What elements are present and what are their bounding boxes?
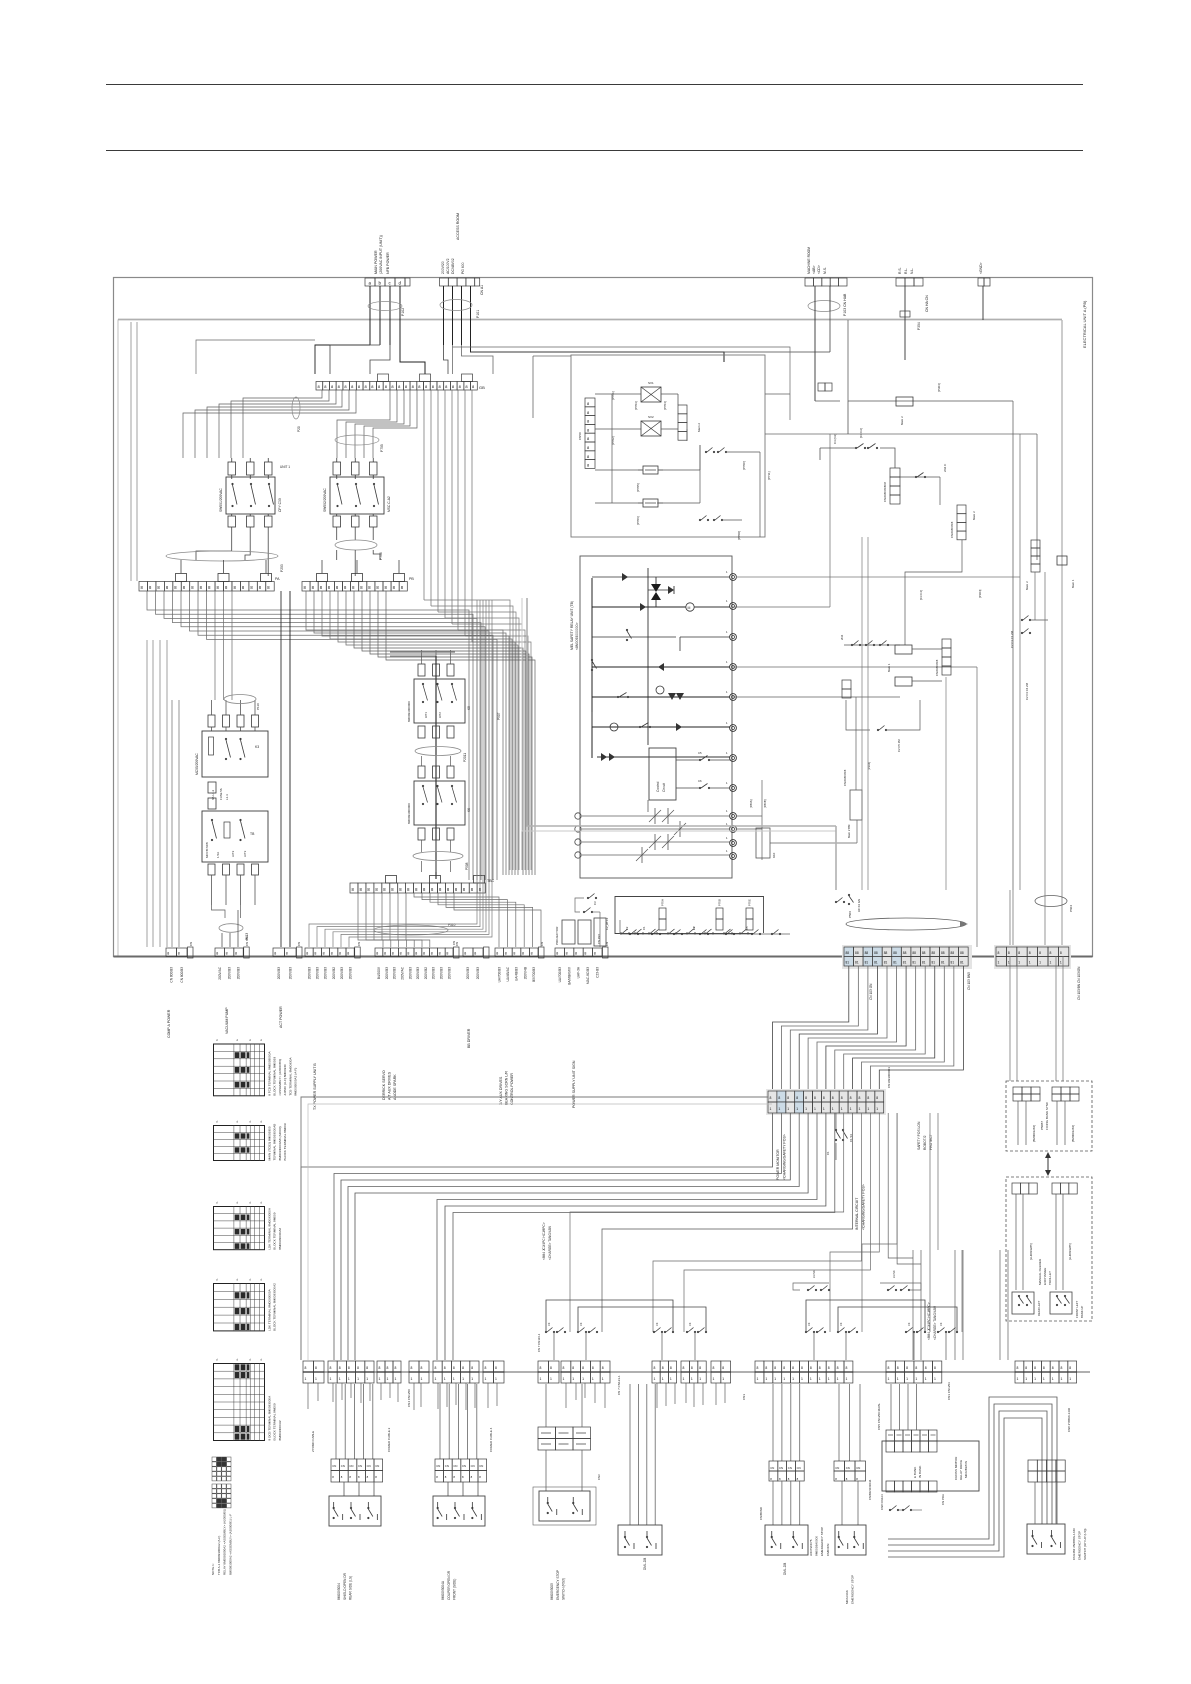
- svg-text:<8M4 JCJ/4PC HCJ/8PC>: <8M4 JCJ/4PC HCJ/8PC>: [927, 1302, 931, 1340]
- svg-text:UA/4B/AC: UA/4B/AC: [506, 966, 510, 981]
- svg-text:88: 88: [884, 951, 888, 955]
- svg-text:<CHARGING/SAFETY POS>: <CHARGING/SAFETY POS>: [783, 1134, 787, 1180]
- svg-text:CN 800/B3: CN 800/B3: [180, 967, 184, 983]
- svg-text:8: 8: [805, 1096, 807, 1100]
- svg-text:CN: CN: [462, 1464, 466, 1468]
- svg-text:1: 1: [379, 1377, 381, 1381]
- svg-text:A/C/TWC75: A/C/TWC75: [809, 1539, 813, 1556]
- svg-text:8: 8: [572, 1366, 574, 1370]
- svg-text:MANUAL FEEDER: MANUAL FEEDER: [1038, 1258, 1042, 1285]
- svg-text:C2: C2: [625, 926, 629, 930]
- svg-text:MACHINE ROOM: MACHINE ROOM: [807, 247, 811, 274]
- svg-text:8: 8: [216, 952, 218, 956]
- svg-text:1: 1: [1050, 961, 1052, 965]
- svg-text:1: 1: [915, 1377, 917, 1381]
- svg-text:8: 8: [178, 952, 180, 956]
- svg-text:CN 800/B3: CN 800/B3: [169, 967, 173, 983]
- svg-text:8: 8: [366, 1366, 368, 1370]
- svg-text:CN8 CN124: CN8 CN124: [880, 1494, 884, 1510]
- svg-text:SWITCH (RH UP (LS)): SWITCH (RH UP (LS)): [1083, 1529, 1087, 1560]
- svg-text:Main 1: Main 1: [887, 663, 891, 672]
- svg-text:8: 8: [323, 952, 325, 956]
- svg-text:200V/B3: 200V/B3: [476, 967, 480, 979]
- svg-text:1: 1: [1039, 961, 1041, 965]
- svg-text:8: 8: [167, 952, 169, 956]
- svg-text:EMERGENCY STOP: EMERGENCY STOP: [820, 1527, 824, 1556]
- svg-text:8: 8: [421, 1366, 423, 1370]
- svg-text:C5: C5: [698, 751, 702, 755]
- svg-text:8: 8: [387, 1366, 389, 1370]
- svg-text:C2: C2: [692, 926, 696, 930]
- svg-text:88: 88: [903, 951, 907, 955]
- svg-text:TB: TB: [250, 832, 255, 836]
- svg-text:8: 8: [446, 952, 448, 956]
- svg-text:1: 1: [796, 1107, 798, 1111]
- svg-text:ANODE SPARK: ANODE SPARK: [393, 1074, 397, 1100]
- svg-text:88: 88: [874, 951, 878, 955]
- svg-text:8: 8: [792, 1366, 794, 1370]
- svg-text:1: 1: [713, 1377, 715, 1381]
- svg-text:[P706]: [P706]: [636, 516, 640, 525]
- svg-text:8: 8: [846, 1366, 848, 1370]
- svg-text:8: 8: [550, 1366, 552, 1370]
- svg-text:SWITCH (RS3): SWITCH (RS3): [562, 1578, 566, 1600]
- svg-text:P101: P101: [476, 310, 480, 318]
- svg-text:1: 1: [582, 1377, 584, 1381]
- svg-text:8: 8: [376, 952, 378, 956]
- svg-text:8: 8: [496, 952, 498, 956]
- svg-text:81: 81: [951, 961, 955, 965]
- svg-text:200V/B2: 200V/B2: [424, 967, 428, 979]
- svg-text:200V/B3: 200V/B3: [385, 967, 389, 979]
- svg-text:1: 1: [841, 1107, 843, 1111]
- svg-text:8: 8: [713, 1366, 715, 1370]
- svg-text:REAR LEFT: REAR LEFT: [1037, 1300, 1041, 1316]
- svg-text:UNIT 1: UNIT 1: [280, 465, 290, 469]
- svg-text:81: 81: [893, 961, 897, 965]
- svg-text:CN/BOND: CN/BOND: [759, 1507, 763, 1520]
- svg-text:P705: P705: [380, 444, 384, 452]
- svg-text:<ASSEMBLY> (A2000/B3): <ASSEMBLY> (A2000/B3): [278, 1059, 282, 1096]
- svg-text:CN: CN: [479, 1464, 483, 1468]
- svg-text:POWER MONITOR: POWER MONITOR: [776, 1149, 780, 1180]
- svg-text:AC/100V2: AC/100V2: [446, 258, 450, 274]
- svg-text:ELECTRICAL UNIT A (PB): ELECTRICAL UNIT A (PB): [1082, 300, 1087, 348]
- svg-text:P508: P508: [465, 862, 469, 870]
- svg-text:MSC C-A2: MSC C-A2: [387, 496, 391, 512]
- svg-text:8M0093005: 8M0093005: [550, 1583, 554, 1600]
- svg-text:1: 1: [683, 1377, 685, 1381]
- svg-text:8: 8: [305, 1366, 307, 1370]
- svg-text:CN: CN: [189, 942, 193, 946]
- svg-text:Main 2: Main 2: [972, 511, 976, 520]
- svg-text:CONTROL POWER: CONTROL POWER: [510, 1073, 514, 1105]
- svg-text:8: 8: [915, 1366, 917, 1370]
- svg-text:8: 8: [1029, 951, 1031, 955]
- svg-text:8: 8: [566, 952, 568, 956]
- svg-text:8: 8: [348, 1366, 350, 1370]
- svg-text:81: 81: [960, 961, 964, 965]
- svg-text:CN: CN: [471, 1464, 475, 1468]
- svg-text:BEARING SCRN L/R: BEARING SCRN L/R: [504, 1071, 508, 1105]
- svg-text:200V/B3: 200V/B3: [277, 967, 281, 979]
- svg-text:A/T2: A/T2: [438, 712, 442, 718]
- svg-text:200V/B3: 200V/B3: [227, 967, 231, 979]
- svg-text:1: 1: [832, 1107, 834, 1111]
- svg-text:1: 1: [602, 1377, 604, 1381]
- svg-text:8: 8: [1025, 1366, 1027, 1370]
- svg-text:EMERGENCY STOP: EMERGENCY STOP: [851, 1575, 855, 1604]
- svg-text:SV1: SV1: [648, 381, 654, 385]
- svg-text:200V/B3: 200V/B3: [288, 967, 292, 979]
- svg-text:DML-DB: DML-DB: [643, 1558, 647, 1570]
- svg-text:1: 1: [805, 1107, 807, 1111]
- svg-text:Main 2: Main 2: [697, 423, 701, 432]
- svg-text:POWER SUPPLY UNIT SIGN: POWER SUPPLY UNIT SIGN: [572, 1060, 576, 1108]
- svg-text:8: 8: [330, 1366, 332, 1370]
- svg-text:1: 1: [846, 1377, 848, 1381]
- svg-text:CN: CN: [788, 1466, 792, 1470]
- svg-text:8: 8: [431, 952, 433, 956]
- svg-text:88: 88: [912, 951, 916, 955]
- svg-text:MAIN POWER: MAIN POWER: [374, 250, 378, 274]
- svg-text:1: 1: [1025, 1377, 1027, 1381]
- svg-text:CN3C8C8C8: CN3C8C8C8: [935, 659, 939, 676]
- svg-text:C3: C3: [939, 1322, 943, 1326]
- svg-text:8: 8: [582, 1366, 584, 1370]
- svg-text:C3: C3: [547, 1322, 551, 1326]
- svg-text:CN3C8C8C8: CN3C8C8C8: [950, 521, 954, 538]
- svg-text:88: 88: [893, 951, 897, 955]
- svg-text:UA/700/B3: UA/700/B3: [558, 967, 562, 983]
- svg-text:1: 1: [387, 1377, 389, 1381]
- svg-text:C3 S4: C3 S4: [892, 1270, 896, 1278]
- svg-text:200V/B3: 200V/B3: [466, 967, 470, 979]
- svg-text:8: 8: [602, 1366, 604, 1370]
- svg-text:CN3: CN3: [597, 1474, 601, 1480]
- svg-text:8: 8: [770, 1096, 772, 1100]
- svg-text:1: 1: [339, 1377, 341, 1381]
- svg-text:1: 1: [315, 1377, 317, 1381]
- svg-text:VACUUM PUMP: VACUUM PUMP: [225, 1007, 229, 1034]
- svg-text:8: 8: [654, 1366, 656, 1370]
- svg-text:2N4 C: 2N4 C: [943, 464, 947, 472]
- svg-text:[P70D]: [P70D]: [737, 531, 741, 540]
- svg-text:8: 8: [998, 951, 1000, 955]
- svg-text:1: 1: [654, 1377, 656, 1381]
- svg-text:PROJECTOR: PROJECTOR: [555, 926, 559, 945]
- svg-text:1: 1: [462, 1377, 464, 1381]
- svg-text:8: 8: [531, 952, 533, 956]
- svg-text:P70E: P70E: [748, 899, 752, 906]
- svg-text:CN 7 CN123-1: CN 7 CN123-1: [537, 1333, 541, 1352]
- svg-text:8: 8: [347, 952, 349, 956]
- svg-text:BA/MBKM/V: BA/MBKM/V: [567, 966, 571, 985]
- svg-text:1: 1: [366, 1377, 368, 1381]
- svg-text:CN: CN: [332, 1464, 336, 1468]
- svg-text:E BANK: E BANK: [913, 1466, 917, 1478]
- svg-text:CN: CN: [358, 1464, 362, 1468]
- svg-text:8M0093004: 8M0093004: [337, 1583, 341, 1600]
- svg-text:81: 81: [846, 961, 850, 965]
- svg-text:1: 1: [1069, 1377, 1071, 1381]
- svg-text:200V/B2: 200V/B2: [332, 967, 336, 979]
- svg-text:C3: C3: [807, 1322, 811, 1326]
- svg-text:200V/B3: 200V/B3: [348, 967, 352, 979]
- svg-text:C2_wt C1: C2_wt C1: [605, 917, 609, 930]
- svg-text:LDK TERMINAL 8M0093000A: LDK TERMINAL 8M0093000A: [268, 1207, 272, 1250]
- svg-text:8M0093000000: 8M0093000000: [407, 701, 411, 722]
- svg-text:CROSS MOTOR: CROSS MOTOR: [954, 1456, 958, 1480]
- svg-text:CN/BX/3C/3D44: CN/BX/3C/3D44: [868, 1479, 872, 1500]
- svg-text:BLOCK TERMINAL 8M009: BLOCK TERMINAL 8M009: [273, 1212, 277, 1249]
- svg-text:8: 8: [867, 1096, 869, 1100]
- svg-text:P103 CN HAB: P103 CN HAB: [843, 293, 847, 316]
- svg-text:TCB TERMINAL 8M00930A: TCB TERMINAL 8M00930A: [288, 1057, 292, 1096]
- svg-text:8: 8: [464, 952, 466, 956]
- svg-text:COMED CABLE 4: COMED CABLE 4: [489, 1427, 493, 1452]
- svg-text:B4/200V: B4/200V: [377, 966, 381, 979]
- svg-text:SAFETY POS LON: SAFETY POS LON: [917, 1121, 921, 1150]
- svg-text:[8M0093284]: [8M0093284]: [1071, 1125, 1075, 1142]
- svg-text:GB: GB: [479, 385, 485, 390]
- svg-text:<8M0093000000>: <8M0093000000>: [575, 622, 579, 650]
- svg-text:200V/B3: 200V/B3: [432, 967, 436, 979]
- svg-text:BB DRIVER: BB DRIVER: [467, 1028, 471, 1048]
- svg-text:8: 8: [226, 952, 228, 956]
- svg-text:8: 8: [513, 952, 515, 956]
- svg-text:1: 1: [563, 1377, 565, 1381]
- svg-text:1: 1: [823, 1107, 825, 1111]
- svg-text:1: 1: [850, 1107, 852, 1111]
- svg-text:1: 1: [934, 1377, 936, 1381]
- svg-text:Control: Control: [656, 781, 660, 792]
- svg-text:8: 8: [1018, 951, 1020, 955]
- svg-text:N.L.: N.L.: [910, 268, 914, 274]
- svg-text:1: 1: [925, 1377, 927, 1381]
- svg-text:8: 8: [392, 952, 394, 956]
- svg-text:1: 1: [897, 1377, 899, 1381]
- svg-text:1: 1: [699, 1377, 701, 1381]
- svg-text:8: 8: [522, 952, 524, 956]
- svg-text:P70A: P70A: [661, 899, 665, 906]
- svg-text:P304: P304: [917, 322, 921, 330]
- svg-text:PROTECT: PROTECT: [929, 1134, 933, 1150]
- svg-text:CN1093000001: CN1093000001: [887, 1067, 891, 1088]
- svg-text:1: 1: [485, 1377, 487, 1381]
- svg-text:[C3 C2]: [C3 C2]: [859, 428, 863, 438]
- svg-text:TBC: TBC: [487, 879, 495, 883]
- svg-text:<CD>: <CD>: [817, 265, 821, 274]
- svg-text:J-0B20 (A-F) 8M00930: J-0B20 (A-F) 8M00930: [283, 1064, 287, 1096]
- svg-text:SW002/200VAC: SW002/200VAC: [323, 488, 327, 512]
- svg-text:1: 1: [662, 1377, 664, 1381]
- svg-text:8: 8: [1008, 951, 1010, 955]
- svg-text:UAF-3A: UAF-3A: [577, 966, 581, 978]
- svg-text:200V/B3: 200V/B3: [416, 967, 420, 979]
- svg-text:P102: P102: [401, 308, 405, 316]
- svg-text:1: 1: [495, 1377, 497, 1381]
- svg-text:8M0093000A2: 8M0093000A2: [278, 1420, 282, 1440]
- svg-text:DERRICK SERVO: DERRICK SERVO: [382, 1070, 386, 1100]
- svg-text:FIXING BANK SYNC: FIXING BANK SYNC: [1045, 1101, 1049, 1130]
- svg-text:1: 1: [819, 1377, 821, 1381]
- svg-text:200V/B3: 200V/B3: [393, 967, 397, 979]
- svg-text:1: 1: [828, 1377, 830, 1381]
- svg-text:8: 8: [1017, 1366, 1019, 1370]
- svg-text:[P304]: [P304]: [937, 383, 941, 392]
- svg-text:8: 8: [837, 1366, 839, 1370]
- svg-text:Circuit: Circuit: [662, 783, 666, 792]
- svg-text:8: 8: [584, 952, 586, 956]
- svg-text:L1.3: L1.3: [225, 794, 229, 800]
- svg-text:1: 1: [722, 1377, 724, 1381]
- svg-text:6A L1.2: 6A L1.2: [211, 789, 215, 800]
- svg-text:[P80A]: [P80A]: [749, 799, 753, 808]
- svg-text:P70B: P70B: [718, 899, 722, 906]
- svg-text:81: 81: [922, 961, 926, 965]
- svg-text:1: 1: [453, 1377, 455, 1381]
- svg-text:8: 8: [897, 1366, 899, 1370]
- svg-text:8: 8: [505, 952, 507, 956]
- svg-text:TX POWER SUPPLY UNIT B: TX POWER SUPPLY UNIT B: [313, 1063, 317, 1110]
- svg-text:8: 8: [400, 952, 402, 956]
- svg-text:CN5 CN1250 MAIN-: CN5 CN1250 MAIN-: [877, 1403, 881, 1430]
- svg-text:K3: K3: [255, 745, 259, 749]
- svg-text:CN PRJ: CN PRJ: [597, 933, 601, 944]
- svg-text:CN: CN: [375, 1464, 379, 1468]
- svg-text:1: 1: [1008, 961, 1010, 965]
- svg-text:BLOCK TERMINAL 8M009: BLOCK TERMINAL 8M009: [283, 1123, 287, 1160]
- svg-text:1: 1: [770, 1107, 772, 1111]
- svg-text:PB: PB: [409, 577, 414, 581]
- svg-text:CN 103/BN CN 103/GN: CN 103/BN CN 103/GN: [1077, 966, 1081, 1000]
- svg-text:8: 8: [819, 1366, 821, 1370]
- svg-text:1: 1: [444, 1377, 446, 1381]
- svg-text:8: 8: [934, 1366, 936, 1370]
- svg-text:2N4: 2N4: [840, 634, 844, 640]
- svg-text:Main 1: Main 1: [1071, 579, 1075, 588]
- svg-text:200V/B3: 200V/B3: [340, 967, 344, 979]
- svg-text:8: 8: [540, 1366, 542, 1370]
- svg-text:CN 8B: CN 8B: [245, 937, 249, 946]
- svg-text:1.5A: 1.5A: [216, 852, 220, 858]
- svg-text:1: 1: [1017, 1377, 1019, 1381]
- svg-text:C1: C1: [642, 926, 646, 930]
- svg-text:8: 8: [357, 1366, 359, 1370]
- svg-text:200V/B3: 200V/B3: [324, 967, 328, 979]
- svg-text:200V/4B: 200V/4B: [523, 967, 527, 979]
- svg-text:1: 1: [801, 1377, 803, 1381]
- svg-text:CPY C30: CPY C30: [278, 498, 282, 512]
- svg-text:BLOCK TERMINAL 8M0093000A2: BLOCK TERMINAL 8M0093000A2: [273, 1283, 277, 1331]
- svg-text:8: 8: [556, 952, 558, 956]
- svg-text:LDK TERMINAL 8M0093000A: LDK TERMINAL 8M0093000A: [268, 1288, 272, 1331]
- svg-text:1: 1: [572, 1377, 574, 1381]
- svg-text:A/T AUX DRIVES: A/T AUX DRIVES: [387, 1071, 391, 1100]
- svg-text:[P80B]: [P80B]: [763, 799, 767, 808]
- svg-text:P20: P20: [297, 426, 301, 432]
- svg-text:1: 1: [411, 1377, 413, 1381]
- svg-text:8: 8: [1060, 951, 1062, 955]
- svg-text:C3: C3: [907, 1322, 911, 1326]
- svg-text:TERMINAL 8M0093000AB: TERMINAL 8M0093000AB: [273, 1124, 277, 1161]
- svg-text:1: 1: [765, 1377, 767, 1381]
- svg-text:MEL SAFETY RELAY UNIT (TB): MEL SAFETY RELAY UNIT (TB): [570, 601, 574, 650]
- svg-text:8: 8: [662, 1366, 664, 1370]
- svg-text:Main 2: Main 2: [1025, 581, 1029, 590]
- svg-text:81: 81: [912, 961, 916, 965]
- svg-text:8: 8: [495, 1366, 497, 1370]
- svg-text:CN: CN: [453, 1464, 457, 1468]
- svg-text:TCB A-1 8M0093000A2 (A-F): TCB A-1 8M0093000A2 (A-F): [217, 1536, 221, 1575]
- svg-text:8M0093A0000: 8M0093A0000: [815, 1536, 819, 1556]
- svg-text:8: 8: [670, 1366, 672, 1370]
- svg-text:CN: CN: [846, 1466, 850, 1470]
- svg-text:C3 S4: C3 S4: [812, 1270, 816, 1278]
- svg-text:200V/20: 200V/20: [441, 261, 445, 274]
- svg-text:1: 1: [774, 1377, 776, 1381]
- svg-text:8: 8: [286, 952, 288, 956]
- svg-text:[C3 C4]: [C3 C4]: [919, 590, 923, 600]
- svg-text:MC/LOAK: MC/LOAK: [845, 1589, 849, 1604]
- svg-text:ACT POWER: ACT POWER: [279, 1006, 283, 1028]
- svg-text:8: 8: [888, 1366, 890, 1370]
- svg-text:1: 1: [540, 1377, 542, 1381]
- svg-text:CN 103 GN: CN 103 GN: [869, 983, 873, 1000]
- svg-text:8: 8: [765, 1366, 767, 1370]
- svg-text:A/T1: A/T1: [424, 712, 428, 718]
- svg-text:M.S.: M.S.: [823, 267, 827, 274]
- svg-text:1: 1: [814, 1107, 816, 1111]
- svg-text:8: 8: [783, 1366, 785, 1370]
- svg-text:8: 8: [594, 952, 596, 956]
- svg-text:8: 8: [415, 952, 417, 956]
- svg-text:200V/B3: 200V/B3: [447, 967, 451, 979]
- svg-text:P50B7: P50B7: [1040, 1121, 1044, 1130]
- svg-text:8: 8: [828, 1366, 830, 1370]
- svg-text:ACCESS ROOM: ACCESS ROOM: [456, 213, 460, 240]
- svg-text:AC K3 GN: AC K3 GN: [857, 899, 861, 912]
- svg-text:200V/B3: 200V/B3: [408, 967, 412, 979]
- svg-text:CN: CN: [367, 1464, 371, 1468]
- svg-text:88: 88: [855, 951, 859, 955]
- svg-text:1: 1: [778, 1107, 780, 1111]
- svg-text:8: 8: [1034, 1366, 1036, 1370]
- svg-text:CN: CN: [445, 1464, 449, 1468]
- svg-text:8: 8: [462, 1366, 464, 1370]
- svg-text:1: 1: [592, 1377, 594, 1381]
- svg-text:BLOCK TERMINAL 8M009: BLOCK TERMINAL 8M009: [273, 1403, 277, 1440]
- svg-text:1: 1: [787, 1107, 789, 1111]
- svg-text:CN50: CN50: [578, 432, 582, 440]
- svg-text:[8M0093284]: [8M0093284]: [1032, 1125, 1036, 1142]
- svg-text:81: 81: [931, 961, 935, 965]
- svg-text:88: 88: [951, 951, 955, 955]
- svg-text:[P304]: [P304]: [978, 589, 982, 598]
- svg-text:8: 8: [796, 1096, 798, 1100]
- svg-text:FUSE 5A: FUSE 5A: [219, 788, 223, 800]
- svg-text:8 DCB TERMINAL 8M0093000A: 8 DCB TERMINAL 8M0093000A: [268, 1395, 272, 1441]
- svg-text:8: 8: [691, 1366, 693, 1370]
- svg-text:C3: C3: [839, 1322, 843, 1326]
- svg-text:8: 8: [1039, 951, 1041, 955]
- svg-text:C3: C3: [655, 1322, 659, 1326]
- svg-text:C3 (C2): C3 (C2): [833, 434, 837, 444]
- svg-text:BLOCK TERMINAL 8M0093: BLOCK TERMINAL 8M0093: [273, 1057, 277, 1096]
- svg-text:IN BANK: IN BANK: [918, 1465, 922, 1478]
- svg-text:8: 8: [331, 952, 333, 956]
